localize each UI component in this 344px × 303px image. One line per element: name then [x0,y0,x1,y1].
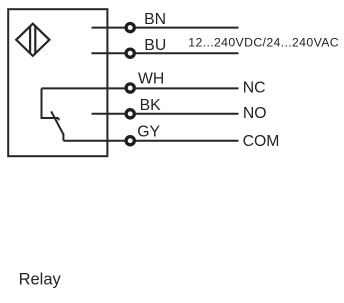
wire BN [92,27,239,29]
svg-text:Relay: Relay [19,270,62,288]
wire BK (to NO) [92,113,239,115]
svg-text:GY: GY [137,124,160,141]
sensor symbol (diamond with parallel chords) [16,24,49,56]
terminal circle BU [126,49,134,57]
svg-text:BU: BU [144,37,166,54]
svg-text:COM: COM [243,133,280,150]
wire GY (to COM) [63,140,238,142]
terminal circle BK [126,110,134,118]
terminal circle WH [126,84,134,92]
wire WH (to NC) [42,87,239,89]
wire BU [92,52,239,54]
svg-text:NO: NO [243,105,267,122]
svg-text:BN: BN [144,11,166,28]
relay contact: WH drop wire [42,88,59,118]
svg-text:NC: NC [243,80,266,97]
terminal circle GY [126,137,134,145]
sensor body (rectangle enclosure) [8,9,107,156]
svg-text:12...240VDC/24...240VAC: 12...240VDC/24...240VAC [188,35,339,49]
svg-text:WH: WH [138,70,164,87]
svg-text:BK: BK [140,97,162,114]
relay contact: armature (switch lever) [51,111,63,134]
relay contact: armature to COM wire [62,133,64,140]
terminal circle BN [126,24,134,32]
relay contact: NC fixed contact tick [58,118,60,120]
